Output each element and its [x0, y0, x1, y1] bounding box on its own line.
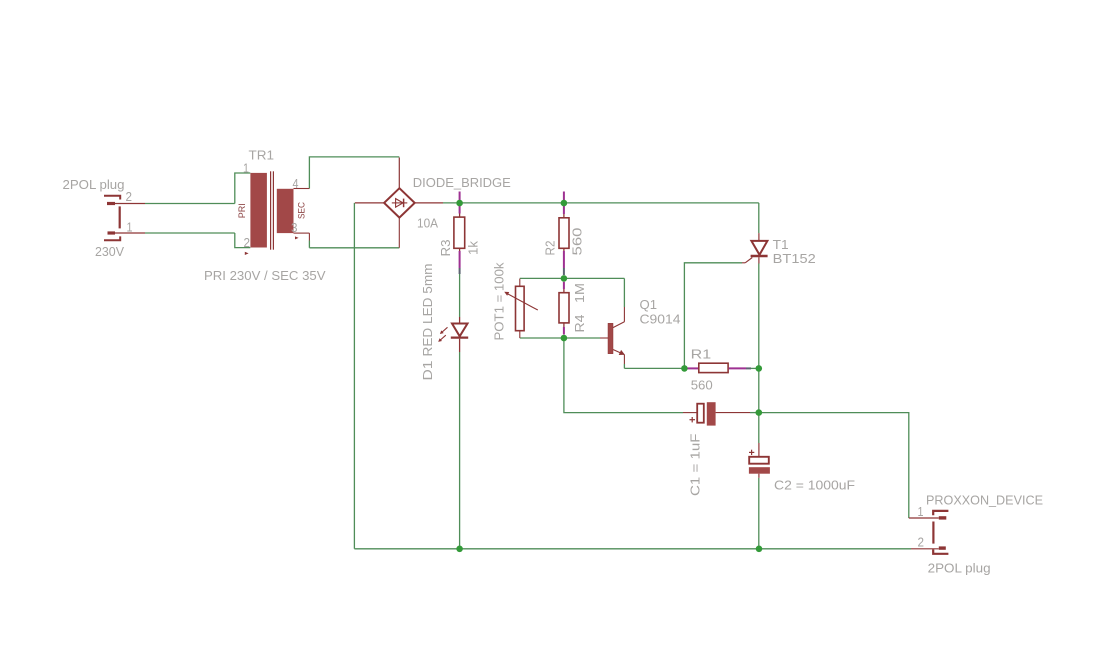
svg-text:SEC: SEC: [297, 202, 308, 219]
thyristor T1 gate lead: [742, 258, 752, 263]
potentiometer POT1 bottom pin: [519, 331, 521, 338]
svg-text:2: 2: [918, 535, 925, 550]
capacitor C2 bottom plate: [749, 467, 770, 474]
svg-text:C1 = 1uF: C1 = 1uF: [688, 434, 703, 497]
svg-text:2POL plug: 2POL plug: [63, 177, 125, 192]
svg-text:560: 560: [691, 378, 713, 393]
capacitor C1 left plate: [697, 404, 704, 423]
svg-text:PRI: PRI: [237, 203, 248, 218]
transistor Q1 base lead: [600, 337, 608, 339]
svg-text:1: 1: [243, 161, 249, 176]
junction node R4 bottom / Q1 base: [561, 335, 568, 342]
svg-text:4: 4: [293, 176, 299, 191]
connector PROXXON pin 1 lead: [909, 517, 939, 519]
svg-text:R2: R2: [543, 241, 558, 256]
resistor R3 pin stub top: [459, 192, 461, 218]
LED D1 top pin: [459, 317, 461, 323]
transistor Q1 emitter with arrow: [613, 350, 625, 365]
svg-text:1: 1: [918, 504, 924, 519]
diode bridge left pin lead: [355, 202, 384, 204]
transformer TR1 pin 4 lead: [294, 188, 310, 190]
svg-text:Q1: Q1: [640, 297, 658, 312]
resistor R4 body: [559, 293, 569, 323]
resistor R3 body: [454, 217, 465, 248]
resistor R4 pin stub top: [563, 282, 565, 293]
junction node C1 right: [756, 409, 763, 416]
connector X1 2POL plug left, pin 2 bracket: [104, 196, 120, 200]
wire T1 column upper: [758, 203, 760, 233]
junction node R2 top: [561, 200, 568, 207]
transistor Q1 collector: [613, 307, 624, 328]
thyristor T1 triangle: [751, 241, 767, 255]
transformer TR1 primary winding: [250, 173, 267, 248]
junction node bottom rail C2 column: [756, 546, 763, 553]
wire R1 left node up to T1 gate: [684, 263, 742, 369]
wire net TR1 pin 4 to diode bridge top: [309, 157, 399, 189]
svg-text:560: 560: [570, 228, 585, 256]
svg-text:C9014: C9014: [640, 312, 681, 327]
svg-text:C2 = 1000uF: C2 = 1000uF: [774, 478, 855, 493]
connector X1 pin 1 contact: [108, 231, 116, 234]
connector PROXXON pin 2 contact: [939, 546, 946, 549]
svg-text:1k: 1k: [466, 241, 481, 255]
wire POT1 top to R2 bottom node and Q1 collector: [520, 278, 625, 307]
svg-text:TR1: TR1: [249, 148, 275, 163]
svg-text:R4: R4: [572, 315, 587, 333]
LED D1 cathode bar: [451, 337, 468, 339]
diode bridge top pin lead: [398, 158, 400, 189]
wire net diode bridge left to left rail down: [353, 203, 355, 549]
svg-text:1: 1: [127, 220, 133, 235]
connector PROXXON pin 2 lead: [911, 548, 939, 550]
svg-text:RED LED 5mm: RED LED 5mm: [420, 263, 435, 356]
wire node R4 bottom down to C1 left: [564, 338, 683, 413]
junction node R2 bottom / POT1 top: [561, 275, 568, 282]
connector X1 pin 1 lead: [115, 232, 145, 234]
resistor R2 pin stub top: [563, 192, 565, 218]
svg-text:POT1 = 100k: POT1 = 100k: [492, 262, 507, 340]
resistor R1 pin stub right: [729, 367, 751, 369]
wire POT1 bottom to R4 bottom node to Q1 base: [520, 337, 600, 339]
LED D1 photon arrow 2: [438, 335, 446, 342]
thyristor T1 cathode bar: [751, 255, 768, 258]
junction node R3 top: [456, 200, 463, 207]
resistor R4 pin stub bottom: [563, 323, 565, 335]
wire C2 to bottom rail: [758, 478, 760, 549]
svg-text:R1: R1: [691, 347, 712, 362]
wire R1 right to T1 column: [751, 367, 759, 369]
resistor R2 body: [559, 218, 569, 249]
svg-text:BT152: BT152: [773, 251, 816, 266]
svg-text:2POL plug: 2POL plug: [928, 561, 991, 576]
thyristor T1 cathode pin: [758, 257, 760, 263]
capacitor C2 plus sign: [749, 450, 754, 455]
LED D1 triangle: [452, 324, 468, 337]
svg-text:3: 3: [291, 220, 298, 235]
capacitor C1 plus sign: [690, 417, 696, 422]
diode bridge bottom pin lead: [398, 218, 400, 248]
svg-text:R3: R3: [438, 240, 453, 257]
capacitor C1 right lead: [716, 412, 750, 414]
svg-text:DIODE_BRIDGE: DIODE_BRIDGE: [413, 175, 511, 190]
wire T1 cathode column down to C2: [758, 264, 760, 444]
resistor R3 pin stub bottom: [459, 248, 461, 274]
wire net from plug pin 1 to TR1 pin 2: [145, 233, 250, 248]
diode bridge body: [384, 188, 415, 217]
connector PROXXON pin 2 bracket: [933, 549, 948, 553]
potentiometer POT1 wiper arrow: [504, 292, 538, 310]
svg-text:PROXXON_DEVICE: PROXXON_DEVICE: [926, 493, 1043, 508]
wire R3 to LED D1: [459, 274, 461, 317]
wire Q1 emitter to R1 left node: [624, 364, 684, 368]
transistor Q1 base bar: [608, 323, 613, 353]
resistor R1 body: [699, 363, 728, 372]
wire C1 right to T1 column: [750, 412, 759, 414]
transformer TR1 pin 3 lead: [294, 233, 310, 240]
wire net from plug pin 2 to TR1 pin 1: [145, 173, 250, 204]
wire net TR1 pin 3 to diode bridge bottom: [309, 241, 399, 248]
connector X1 pin 2 lead: [115, 203, 145, 205]
transformer TR1 secondary polarity mark: [295, 236, 299, 239]
resistor R1 pin stub left: [687, 367, 699, 369]
junction node bottom rail LED column: [456, 546, 463, 553]
svg-text:D1: D1: [420, 361, 435, 381]
connector X1 pin 2 contact: [107, 202, 115, 205]
wire C1 node right to PROXXON plug pin 1: [759, 413, 909, 518]
LED D1 bottom pin: [459, 339, 461, 352]
diode bridge inner diode symbol: [392, 199, 408, 208]
svg-text:PRI 230V / SEC 35V: PRI 230V / SEC 35V: [204, 268, 326, 283]
diode bridge right pin lead: [415, 202, 443, 204]
transformer TR1 primary polarity mark: [245, 252, 249, 255]
svg-text:230V: 230V: [95, 244, 124, 259]
connector PROXXON body: [932, 522, 934, 544]
capacitor C1 left lead: [683, 412, 697, 414]
potentiometer POT1 top pin: [519, 279, 521, 287]
capacitor C2 top plate: [749, 457, 769, 464]
resistor R2 pin stub bottom: [563, 248, 565, 275]
svg-text:10A: 10A: [417, 216, 438, 231]
svg-text:T1: T1: [773, 237, 789, 252]
thyristor T1 anode pin: [758, 233, 760, 240]
connector PROXXON pin 1 bracket: [933, 511, 948, 515]
LED D1 photon arrow 1: [440, 327, 448, 334]
potentiometer POT1 body: [516, 286, 525, 330]
capacitor C1 right plate: [707, 402, 716, 425]
capacitor C2 bottom pin: [758, 474, 760, 478]
transformer TR1 secondary winding: [277, 189, 294, 233]
junction node R1 left / T1 gate: [681, 365, 688, 372]
wire bottom rail: [354, 548, 911, 550]
transformer TR1 core lines: [271, 171, 274, 249]
wire LED D1 to bottom rail: [459, 352, 461, 549]
svg-text:1M: 1M: [572, 283, 587, 303]
svg-text:2: 2: [244, 235, 251, 250]
connector X1 body: [119, 206, 121, 228]
connector X1 pin 1 bracket: [104, 236, 120, 240]
wire top bus diode bridge right to T1 column: [443, 202, 759, 204]
connector PROXXON pin 1 contact: [939, 516, 947, 519]
junction node R1 right: [756, 365, 763, 372]
capacitor C2 top pin: [758, 443, 760, 457]
svg-text:2: 2: [126, 189, 133, 204]
